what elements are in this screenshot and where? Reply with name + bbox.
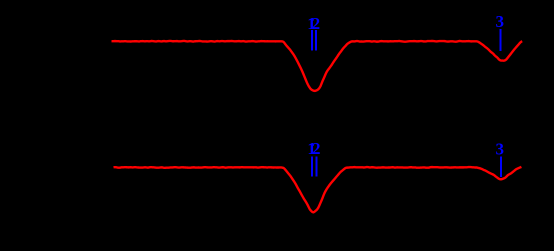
bottom peak tick 1	[311, 157, 313, 177]
top spectrum curve (red trace, peaks 1,2 at x~314 and peak 3 at x~502)	[112, 41, 523, 91]
top peak tick 1	[311, 30, 313, 51]
svg-text:2: 2	[312, 14, 321, 33]
bottom peak tick 2	[316, 157, 318, 177]
svg-text:2: 2	[312, 139, 321, 158]
bottom peak tick 3	[500, 157, 502, 178]
svg-text:3: 3	[495, 12, 504, 31]
top peak tick 3	[500, 29, 502, 51]
top peak tick 2	[315, 30, 317, 51]
svg-text:3: 3	[495, 140, 504, 159]
bottom spectrum curve (red trace, peaks 1,2 at x~313 and peak 3 at x~500)	[114, 167, 522, 212]
